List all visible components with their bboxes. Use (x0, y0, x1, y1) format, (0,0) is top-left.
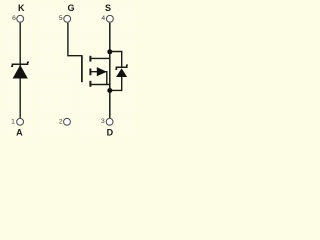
wire S to D main vertical (109, 23, 111, 118)
svg-text:S: S (105, 3, 111, 13)
transistor Q1 body stub (91, 72, 107, 85)
transistor Q1 channel dashes (89, 56, 91, 87)
svg-text:2: 2 (59, 118, 63, 125)
pin 4 terminal circle (107, 15, 114, 22)
junction dot top (107, 49, 112, 54)
wire to body diode top (110, 52, 122, 67)
transistor Q1 drain stub (91, 57, 110, 59)
svg-text:1: 1 (11, 118, 15, 125)
transistor Q1 source stub (91, 84, 110, 86)
wire K to diode D1 (19, 23, 21, 118)
body diode D2 anode triangle (116, 68, 127, 77)
wire from body diode bottom (110, 77, 122, 90)
svg-text:D: D (107, 128, 114, 138)
junction dot bottom (107, 88, 112, 93)
pin 2 terminal circle (64, 118, 71, 125)
pin 1 terminal circle (17, 118, 24, 125)
svg-text:G: G (67, 3, 74, 13)
wire G to gate (68, 23, 82, 56)
pin 6 terminal circle (17, 15, 24, 22)
svg-text:K: K (18, 3, 25, 13)
svg-text:6: 6 (12, 15, 16, 22)
svg-text:4: 4 (101, 15, 105, 22)
pin 3 terminal circle (106, 118, 113, 125)
pin 5 terminal circle (64, 15, 71, 22)
svg-text:3: 3 (101, 118, 105, 125)
diode D1 cathode bar (schottky) (11, 62, 29, 66)
diode D1 anode triangle (13, 65, 28, 79)
transistor Q1 gate electrode (81, 55, 83, 82)
body diode D2 cathode bar (schottky) (115, 65, 127, 69)
svg-text:A: A (16, 128, 23, 138)
svg-text:5: 5 (59, 15, 63, 22)
transistor Q1 body arrow (97, 67, 107, 76)
